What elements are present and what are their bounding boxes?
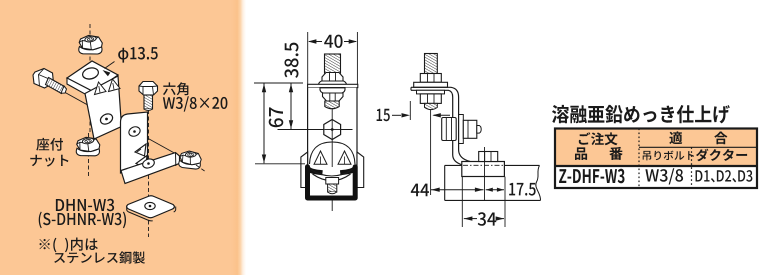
flange nut above bracket no.1 bbox=[79, 36, 103, 55]
header text 品番 bbox=[575, 147, 587, 160]
data cell W3/8 bbox=[645, 168, 683, 184]
front view hanging rod (threaded) bbox=[325, 54, 341, 73]
hidden line of duct lip in foot (dash-dot) bbox=[463, 164, 504, 166]
dimension 38.5 and 67 top extension line bbox=[254, 82, 303, 84]
prong triangles on top face bbox=[95, 82, 107, 95]
front view arch cut in body bbox=[310, 142, 356, 164]
side view rod stub bbox=[425, 103, 438, 109]
front view bracket top plate bbox=[308, 84, 358, 87]
front view bracket body sides bbox=[308, 88, 357, 165]
dimension 15 text and arrows bbox=[377, 109, 390, 121]
hole in left plate bracket no.2 bbox=[127, 125, 141, 138]
label 座付ナット bbox=[36, 138, 63, 151]
header text ダクター bbox=[696, 149, 747, 162]
flange nut right of bracket no.2 bbox=[178, 150, 202, 169]
bracket DHN-W3 no.2 left plate bbox=[121, 112, 148, 173]
dimension 34 line bbox=[464, 218, 477, 220]
side view duct rail with break line bbox=[445, 164, 462, 166]
seat flange nut 座付ナット pictorial bbox=[76, 137, 100, 156]
table dotted column divider 2 bbox=[691, 147, 693, 188]
front view prong left bbox=[314, 151, 327, 164]
assembly axis diagonal bolt to flange nut bbox=[48, 83, 196, 165]
bracket no.2 bottom plate with hole bbox=[121, 153, 180, 184]
data cell D1、D2、D3 bbox=[696, 170, 753, 182]
bottom extension line front view bbox=[255, 163, 305, 165]
hex bolt 六角 W3/8x20 pictorial vertical bbox=[148, 110, 150, 237]
front view clamp screw stub bbox=[326, 178, 339, 185]
dimension text 67 rotated bbox=[269, 107, 284, 127]
label 六角 W3/8×20 bbox=[163, 82, 188, 95]
front view left side tab bbox=[301, 152, 308, 188]
dimension 15: left extension line bbox=[409, 101, 411, 120]
dimension 67 vertical line with arrows bbox=[263, 84, 265, 164]
front view lower flange washer and nut under plate bbox=[320, 88, 345, 93]
side view washer flange bbox=[414, 82, 448, 87]
front view inner strap curves bbox=[311, 170, 353, 177]
hex bolt left (W3/8 bolt pictorial) bbox=[33, 69, 67, 94]
table header background bbox=[555, 129, 757, 167]
assembly centerline vertical through flange nut and bracket hole bbox=[89, 24, 91, 133]
front view horizontal centerline through hole bbox=[278, 129, 353, 131]
side view middle bolt nut on vertical plate bbox=[459, 115, 464, 144]
note ステンレス鋼製 bbox=[54, 251, 145, 263]
dimension 38.5 vertical line with arrows bbox=[290, 84, 292, 130]
table thick line under header bbox=[555, 165, 757, 167]
prongs on bracket no.2 bbox=[135, 144, 146, 156]
front view duct clamp thick channel bbox=[308, 167, 356, 198]
table title 溶融亜鉛めっき仕上げ bbox=[552, 105, 730, 124]
front view center vertical line bbox=[331, 108, 333, 211]
front view rod stub below nut bbox=[325, 101, 339, 109]
hole in saddle plate bbox=[145, 202, 155, 209]
bracket no.1 left thickness edge bbox=[67, 78, 94, 99]
table thin line splitting 適合 header bbox=[639, 146, 757, 148]
dimension text 38.5 rotated bbox=[285, 43, 299, 78]
extension lines for 34 and 17.5 bbox=[461, 177, 463, 227]
dimension 44 line bbox=[411, 184, 429, 197]
side view foot plate on rail bbox=[462, 162, 505, 177]
hole in bottom plate bracket no.2 bbox=[141, 157, 155, 169]
note ※( )内は bbox=[40, 238, 98, 253]
front view upper flange washer bbox=[318, 81, 346, 87]
front view right side tab bbox=[357, 152, 364, 188]
label (S-DHNR-W3) bbox=[39, 212, 126, 229]
hole φ13.5 in top face bbox=[81, 66, 99, 80]
front view: dimension 40 extension lines bbox=[307, 32, 309, 86]
side view hanging rod bbox=[425, 54, 438, 74]
side view rod centerline extended down bbox=[430, 109, 432, 195]
bracket DHN-W3 no.1 top face with hole bbox=[67, 61, 118, 92]
side view upper nut bbox=[420, 74, 441, 83]
foot bolt centerline vertical bbox=[484, 147, 486, 201]
small hole front face bracket no.1 bbox=[99, 112, 115, 126]
header text 適合 bbox=[669, 131, 682, 144]
front view upper hex nut bbox=[322, 73, 343, 83]
data cell Z-DHF-W3 bbox=[559, 169, 624, 184]
front view hex boss with center hole bbox=[324, 120, 341, 140]
table outer border bbox=[555, 129, 757, 189]
front view prong right bbox=[338, 151, 351, 164]
saddle plate below bracket no.2 bbox=[127, 196, 175, 218]
dimension 40 line and arrows bbox=[309, 41, 322, 43]
label DHN-W3 bbox=[56, 199, 114, 211]
label φ13.5 with leader arrow bbox=[118, 47, 157, 63]
side view lower nut under leg bbox=[417, 90, 445, 94]
header text ご注文 bbox=[579, 132, 618, 145]
dimension 17.5 line bbox=[486, 189, 504, 191]
table dotted column divider 1 bbox=[638, 129, 640, 189]
side view foot set bolt head bbox=[479, 152, 498, 162]
side view bracket top leg bbox=[411, 87, 470, 161]
header text 吊りボルト bbox=[643, 151, 694, 161]
bracket no.1 front face with small hole bbox=[85, 76, 122, 139]
dimension text 40 bbox=[324, 35, 342, 48]
